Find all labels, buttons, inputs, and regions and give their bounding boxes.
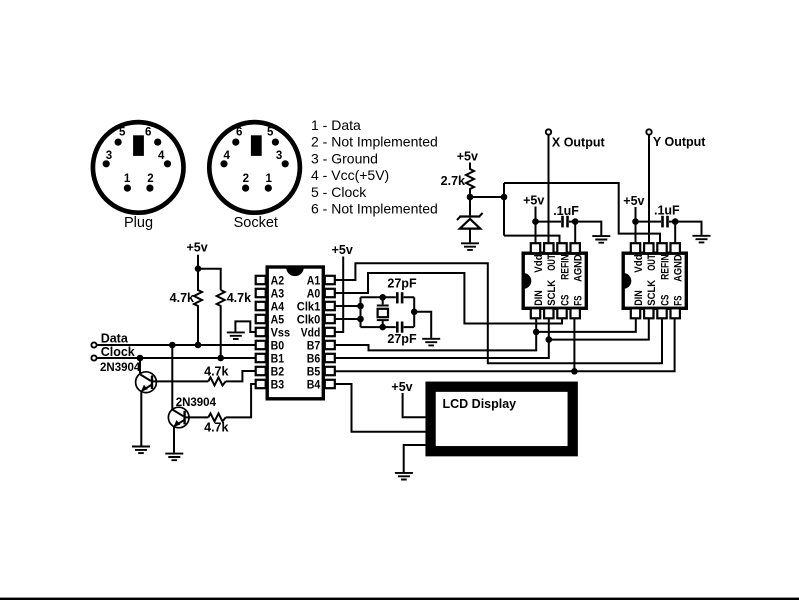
wire AGND2 stub bbox=[674, 222, 676, 244]
svg-text:X Output: X Output bbox=[552, 135, 606, 149]
wire Vss to ground bbox=[235, 321, 255, 332]
wire crystal to ground bbox=[414, 312, 431, 338]
svg-text:5: 5 bbox=[119, 126, 126, 138]
wire Q2 collector bbox=[171, 345, 173, 410]
LCD label bbox=[443, 397, 517, 411]
ground crystal bbox=[422, 339, 440, 346]
capacitor C2 27pF bbox=[396, 322, 403, 333]
socket pin 6 bbox=[232, 126, 242, 145]
wire B5 to FS2 bbox=[335, 318, 675, 371]
svg-text:REFIN: REFIN bbox=[559, 254, 571, 280]
socket caption bbox=[234, 215, 278, 231]
U1 right pin labels bbox=[297, 273, 321, 391]
capacitor C3 .1uF bbox=[561, 216, 569, 228]
wire B7 to DIN1 bbox=[335, 318, 536, 350]
junction crystal top bbox=[379, 294, 386, 301]
wire LCD to ground bbox=[404, 445, 427, 472]
X Output label bbox=[552, 135, 606, 149]
svg-text:A5: A5 bbox=[271, 312, 285, 326]
socket pin 4 bbox=[220, 150, 230, 167]
C3 value label bbox=[553, 204, 579, 218]
svg-text:4.7k: 4.7k bbox=[170, 291, 194, 305]
junction crystal bottom bbox=[379, 324, 386, 331]
Data terminal bbox=[91, 342, 96, 347]
svg-text:Data: Data bbox=[101, 332, 129, 346]
transistor Q1 2N3904 label bbox=[100, 362, 141, 374]
svg-text:CS: CS bbox=[659, 295, 671, 306]
+5v label DAC2 bbox=[623, 194, 644, 208]
wire Y Output to OUT2 bbox=[648, 135, 650, 243]
junction Data/R1 bbox=[195, 342, 202, 349]
svg-text:DIN: DIN bbox=[633, 290, 645, 306]
U3 pin labels bottom row bbox=[633, 280, 685, 306]
svg-text:SCLK: SCLK bbox=[646, 280, 658, 306]
svg-text:3: 3 bbox=[106, 150, 112, 162]
wire AGND1 stub bbox=[574, 222, 576, 244]
X Output terminal bbox=[546, 129, 551, 134]
svg-text:AGND: AGND bbox=[573, 254, 585, 282]
junction crystal right bbox=[411, 309, 418, 316]
wire C3 to ground bbox=[569, 222, 601, 236]
wire A0 to CS1 bbox=[335, 273, 562, 324]
svg-text:6 - Not Implemented: 6 - Not Implemented bbox=[311, 201, 438, 217]
wire Q2 base bbox=[185, 416, 209, 418]
R2 value label bbox=[227, 291, 251, 305]
plug pin 3 bbox=[103, 150, 113, 167]
resistor R2 4.7k (Clock pull-up) bbox=[217, 290, 225, 358]
svg-text:B7: B7 bbox=[307, 338, 321, 352]
U2 pin labels bottom row bbox=[533, 280, 585, 306]
wire zener node to vref rail bbox=[470, 196, 504, 198]
wire vref to REFIN1 bbox=[504, 236, 560, 244]
svg-text:4: 4 bbox=[223, 150, 230, 162]
svg-text:5 - Clock: 5 - Clock bbox=[311, 184, 367, 200]
svg-text:Vdd: Vdd bbox=[533, 254, 545, 272]
svg-text:A4: A4 bbox=[271, 299, 285, 313]
svg-text:Socket: Socket bbox=[234, 215, 278, 231]
svg-text:4 - Vcc(+5V): 4 - Vcc(+5V) bbox=[311, 167, 389, 183]
C1 value label bbox=[387, 277, 417, 291]
U3 top pin squares bbox=[631, 243, 680, 253]
Clock label bbox=[101, 345, 135, 359]
wire +5v to Vdd2 bbox=[635, 207, 637, 243]
junction AGND2 bbox=[672, 218, 679, 225]
zener diode D1 bbox=[457, 197, 483, 242]
wire +5v to Vdd1 bbox=[535, 207, 537, 244]
svg-text:2.7k: 2.7k bbox=[441, 174, 465, 188]
svg-text:+5v: +5v bbox=[391, 380, 412, 394]
wire crystal loop left rail bbox=[360, 297, 362, 327]
svg-text:1 - Data: 1 - Data bbox=[311, 117, 361, 133]
Data label bbox=[101, 332, 129, 346]
+5v label pull-ups bbox=[186, 241, 207, 255]
svg-text:3: 3 bbox=[276, 150, 282, 162]
Y Output terminal bbox=[646, 129, 651, 134]
plug pin 4 bbox=[158, 150, 171, 167]
svg-text:OUT: OUT bbox=[546, 254, 558, 271]
svg-text:REFIN: REFIN bbox=[659, 254, 671, 280]
svg-text:1: 1 bbox=[124, 173, 131, 185]
junction Data/Q2 collector bbox=[169, 342, 176, 349]
svg-text:+5v: +5v bbox=[623, 194, 644, 208]
U2 pin labels top row bbox=[533, 254, 585, 282]
plug pin 6 bbox=[145, 126, 161, 145]
+5v label LCD bbox=[391, 380, 412, 394]
socket pin 1 bbox=[265, 173, 273, 192]
svg-text:A0: A0 bbox=[307, 286, 321, 300]
svg-text:B6: B6 bbox=[307, 351, 321, 365]
resistor R1 4.7k (Data pull-up) bbox=[194, 269, 202, 345]
wire R4 to B3 bbox=[226, 384, 256, 417]
svg-text:LCD Display: LCD Display bbox=[443, 397, 517, 411]
U3 pin labels top row bbox=[633, 254, 685, 282]
wire Q1 emitter bbox=[140, 391, 142, 446]
ground Q2 bbox=[165, 454, 183, 461]
svg-text:B1: B1 bbox=[271, 351, 285, 365]
wire Clk1 to crystal bbox=[335, 305, 361, 307]
R1 value label bbox=[170, 291, 194, 305]
DAC U3 body bbox=[623, 253, 686, 308]
junction SCLK bbox=[546, 336, 553, 343]
junction AGND1 bbox=[572, 218, 579, 225]
capacitor C4 .1uF bbox=[661, 216, 669, 228]
junction DIN bbox=[533, 329, 540, 336]
wire Clk0 to crystal bbox=[335, 318, 361, 320]
wire vref vertical bbox=[503, 183, 505, 236]
U2 bottom pin squares bbox=[531, 308, 580, 318]
svg-text:6: 6 bbox=[145, 126, 151, 138]
U3 bottom pin squares bbox=[631, 308, 680, 318]
svg-text:Clock: Clock bbox=[101, 345, 135, 359]
ground LCD bbox=[395, 473, 413, 480]
svg-text:Vss: Vss bbox=[271, 325, 291, 339]
wire vref to REFIN2 bbox=[504, 183, 660, 243]
junction Vdd1 bbox=[532, 218, 539, 225]
U1 right pin squares bbox=[325, 276, 335, 388]
wire C4 to ground bbox=[669, 222, 702, 235]
svg-text:5: 5 bbox=[267, 126, 274, 138]
svg-text:Clk1: Clk1 bbox=[297, 299, 321, 313]
wire SCLK1 to SCLK2 bbox=[549, 318, 649, 339]
svg-text:4.7k: 4.7k bbox=[204, 364, 228, 378]
wire B6 to SCLK1 bbox=[335, 318, 549, 358]
crystal Y1 bbox=[377, 297, 389, 327]
svg-text:.1uF: .1uF bbox=[553, 204, 579, 218]
wire +5v to resistors bbox=[198, 255, 221, 290]
ground zener bbox=[461, 243, 479, 250]
svg-text:2N3904: 2N3904 bbox=[100, 362, 141, 374]
junction Clk1 bbox=[357, 303, 364, 310]
svg-text:B4: B4 bbox=[307, 377, 321, 391]
svg-text:AGND: AGND bbox=[673, 254, 685, 282]
LCD display module bbox=[431, 387, 573, 452]
connector J2 socket outline bbox=[209, 122, 300, 213]
svg-text:Vdd: Vdd bbox=[301, 325, 321, 339]
resistor R4 4.7k (Q2 base) bbox=[208, 413, 225, 421]
ground Q1 bbox=[132, 447, 150, 454]
wire X Output to OUT1 bbox=[548, 135, 550, 243]
svg-text:2: 2 bbox=[243, 173, 249, 185]
svg-text:4.7k: 4.7k bbox=[204, 420, 228, 434]
plug key slot bbox=[133, 135, 144, 156]
svg-text:1: 1 bbox=[265, 173, 272, 185]
wire Clock line bbox=[98, 357, 256, 359]
+5v label U1 bbox=[332, 243, 353, 257]
junction FS bbox=[571, 368, 578, 375]
resistor R3 4.7k (Q1 base) bbox=[208, 377, 225, 385]
wire R3 to B2 bbox=[226, 371, 256, 381]
svg-text:3 - Ground: 3 - Ground bbox=[311, 150, 378, 166]
wire B4 to LCD bbox=[335, 384, 427, 432]
svg-text:4: 4 bbox=[158, 150, 165, 162]
pinout legend bbox=[311, 117, 438, 217]
svg-text:27pF: 27pF bbox=[387, 332, 417, 346]
svg-text:.1uF: .1uF bbox=[654, 204, 680, 218]
wire Q1 base bbox=[152, 380, 208, 382]
svg-text:2 - Not Implemented: 2 - Not Implemented bbox=[311, 134, 438, 150]
plug pin 1 bbox=[124, 173, 131, 192]
Clock terminal bbox=[91, 355, 96, 360]
wire crystal loop top rail bbox=[361, 296, 415, 298]
wire A1 to CS2 bbox=[335, 263, 662, 363]
+5v label 2.7k bbox=[457, 150, 478, 164]
plug pin 5 bbox=[115, 126, 126, 145]
svg-text:B0: B0 bbox=[271, 338, 285, 352]
U3 notch bbox=[623, 273, 631, 289]
transistor Q2 2N3904 label bbox=[176, 397, 217, 409]
transistor Q2 bbox=[168, 407, 189, 428]
U2 notch bbox=[523, 273, 531, 289]
wire +5v to U1 Vdd bbox=[335, 257, 343, 333]
svg-text:SCLK: SCLK bbox=[546, 280, 558, 306]
svg-text:Vdd: Vdd bbox=[633, 254, 645, 272]
svg-text:Clk0: Clk0 bbox=[297, 312, 321, 326]
svg-text:+5v: +5v bbox=[457, 150, 478, 164]
svg-text:A3: A3 bbox=[271, 286, 285, 300]
connector J1 plug outline bbox=[93, 122, 184, 213]
svg-text:FS: FS bbox=[573, 296, 585, 306]
svg-text:B2: B2 bbox=[271, 364, 285, 378]
wire Q2 emitter bbox=[173, 426, 175, 453]
plug pin 2 bbox=[146, 173, 153, 192]
wire Data line bbox=[98, 344, 256, 346]
junction Vdd2 bbox=[632, 218, 639, 225]
junction pull-up split bbox=[195, 265, 202, 272]
junction Clock/Q1 collector bbox=[137, 355, 144, 362]
svg-text:+5v: +5v bbox=[332, 243, 353, 257]
svg-text:DIN: DIN bbox=[533, 290, 545, 306]
junction Clock/R2 bbox=[217, 355, 224, 362]
svg-text:27pF: 27pF bbox=[387, 277, 417, 291]
bottom border bar bbox=[0, 598, 799, 600]
R5 value label bbox=[441, 174, 465, 188]
socket pin 3 bbox=[276, 150, 289, 167]
junction vref rail bbox=[501, 194, 508, 201]
C4 value label bbox=[654, 204, 680, 218]
svg-text:2: 2 bbox=[147, 173, 153, 185]
microcontroller U1 body bbox=[267, 267, 323, 399]
socket pin 2 bbox=[242, 173, 249, 192]
svg-text:A2: A2 bbox=[271, 273, 285, 287]
wire FS1 stub bbox=[573, 318, 575, 371]
svg-text:B3: B3 bbox=[271, 377, 285, 391]
svg-text:+5v: +5v bbox=[186, 241, 207, 255]
ground DAC1 bbox=[592, 236, 610, 243]
capacitor C1 27pF bbox=[396, 292, 403, 303]
svg-text:CS: CS bbox=[559, 295, 571, 306]
transistor Q1 bbox=[136, 372, 157, 393]
wire Q1 collector bbox=[139, 358, 141, 374]
svg-text:Y Output: Y Output bbox=[653, 135, 706, 149]
U1 notch bbox=[286, 267, 304, 276]
C2 value label bbox=[387, 332, 417, 346]
wire crystal loop bottom rail bbox=[361, 326, 415, 328]
plug caption bbox=[124, 215, 153, 231]
wire Vdd2 to C4 bbox=[636, 221, 662, 223]
wire Vdd1 to C3 bbox=[536, 221, 562, 223]
svg-text:OUT: OUT bbox=[646, 254, 658, 271]
U1 left pin labels bbox=[271, 273, 291, 391]
wire crystal loop right rail bbox=[413, 297, 415, 327]
DAC U2 body bbox=[523, 253, 586, 308]
svg-text:Plug: Plug bbox=[124, 215, 153, 231]
svg-text:A1: A1 bbox=[307, 273, 321, 287]
svg-text:+5v: +5v bbox=[523, 194, 544, 208]
junction zener node bbox=[467, 194, 474, 201]
svg-text:4.7k: 4.7k bbox=[227, 291, 251, 305]
Y Output label bbox=[653, 135, 706, 149]
svg-text:FS: FS bbox=[673, 296, 685, 306]
wire +5v to LCD bbox=[403, 393, 427, 417]
resistor R5 2.7k bbox=[466, 163, 474, 198]
ground Vss bbox=[227, 332, 245, 339]
+5v label DAC1 bbox=[523, 194, 544, 208]
wire DIN1 to DIN2 bbox=[536, 318, 636, 332]
U2 top pin squares bbox=[531, 243, 580, 253]
U1 left pin squares bbox=[256, 276, 266, 388]
socket pin 5 bbox=[267, 126, 279, 145]
svg-text:B5: B5 bbox=[307, 364, 321, 378]
svg-text:6: 6 bbox=[236, 126, 242, 138]
junction Clk0 bbox=[357, 316, 364, 323]
socket key slot bbox=[251, 135, 262, 156]
R4 value label bbox=[204, 420, 228, 434]
ground DAC2 bbox=[693, 236, 711, 243]
R3 value label bbox=[204, 364, 228, 378]
